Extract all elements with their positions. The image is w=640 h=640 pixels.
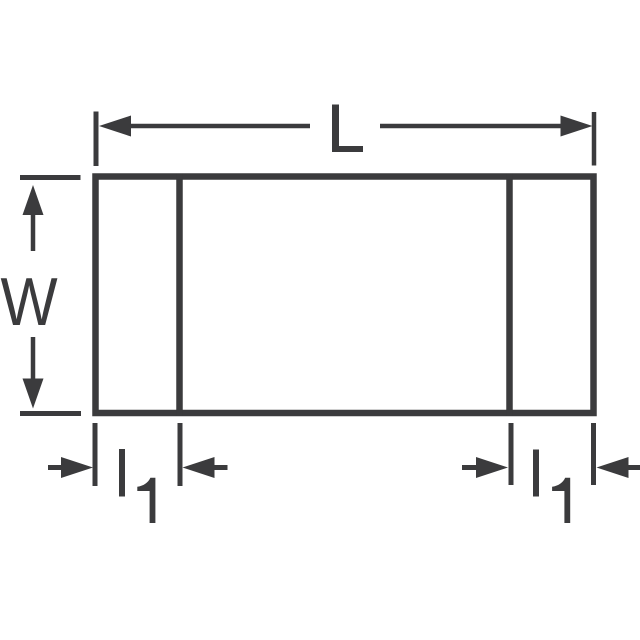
svg-text:W: W — [0, 264, 57, 340]
